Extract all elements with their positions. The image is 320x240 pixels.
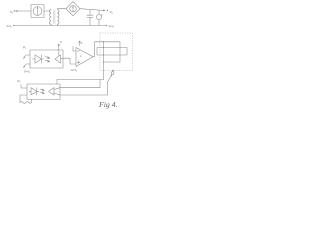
svg-text:V0: V0	[110, 10, 114, 15]
svg-text:0+V2: 0+V2	[24, 70, 30, 75]
svg-text:V: V	[60, 40, 62, 44]
svg-text:0+V1: 0+V1	[7, 25, 12, 28]
svg-text:0+V0: 0+V0	[109, 25, 114, 28]
svg-text:0+V2: 0+V2	[71, 68, 77, 73]
svg-text:V1: V1	[10, 10, 14, 15]
svg-text:c: c	[101, 14, 103, 17]
svg-text:c: c	[80, 54, 82, 58]
svg-text:Fig 4.: Fig 4.	[98, 100, 118, 109]
svg-text:P1: P1	[23, 46, 27, 51]
svg-text:P2: P2	[18, 79, 22, 84]
svg-text:V: V	[81, 41, 83, 45]
